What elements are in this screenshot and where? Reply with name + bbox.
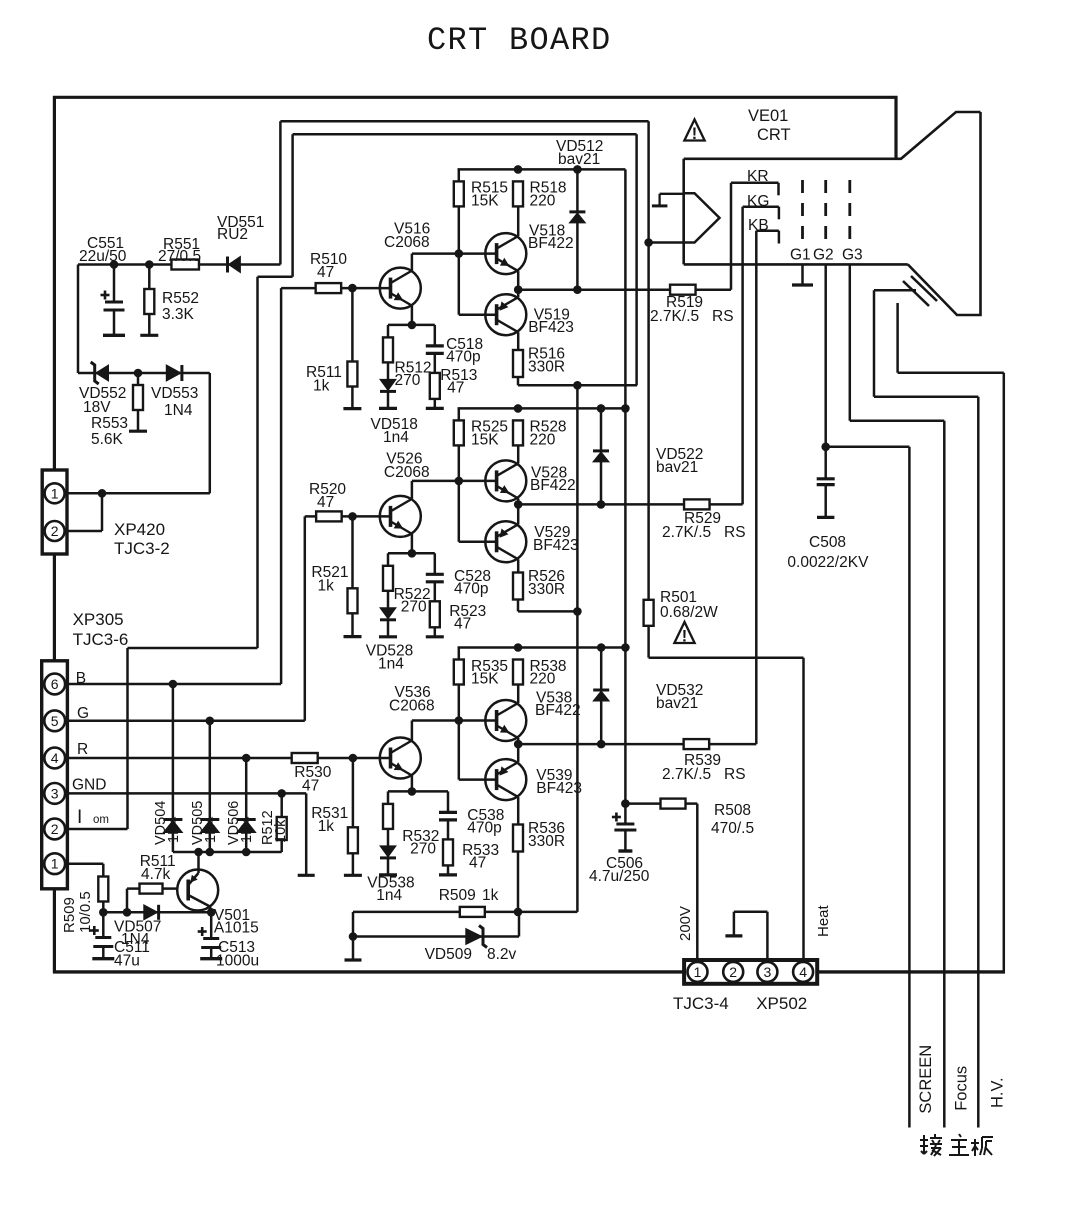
wire HV from funnel bbox=[874, 289, 916, 292]
resistor R535 15K bbox=[458, 648, 461, 660]
svg-text:470p: 470p bbox=[467, 820, 501, 837]
resistor R530 47 bbox=[292, 753, 318, 763]
wire V526 collector to drivers bbox=[455, 477, 464, 486]
diode VD532 bav21 bbox=[600, 648, 603, 691]
resistor R551 27/0.5 bbox=[171, 260, 199, 270]
svg-text:470p: 470p bbox=[454, 581, 488, 598]
svg-text:15K: 15K bbox=[471, 431, 499, 448]
wire bias node bbox=[103, 911, 211, 914]
wire KG vertical to R529 bbox=[741, 207, 744, 505]
svg-text:RU2: RU2 bbox=[217, 226, 248, 243]
svg-text:GND: GND bbox=[72, 777, 106, 794]
svg-text:200V: 200V bbox=[677, 906, 694, 941]
svg-text:1N4: 1N4 bbox=[203, 816, 219, 843]
svg-text:A1015: A1015 bbox=[214, 920, 259, 937]
svg-text:0.68/2W: 0.68/2W bbox=[660, 604, 718, 621]
resistor R519 2.7K/.5 RS bbox=[670, 285, 696, 295]
G1 ground bbox=[801, 264, 804, 285]
transistor V519 BF423 bbox=[485, 294, 526, 335]
svg-text:VE01: VE01 bbox=[748, 107, 788, 125]
resistor R516 330R bbox=[513, 350, 523, 377]
svg-text:BF422: BF422 bbox=[535, 702, 581, 719]
svg-text:BF423: BF423 bbox=[536, 780, 582, 797]
svg-text:1: 1 bbox=[694, 964, 702, 980]
resistor R518 220 bbox=[513, 181, 523, 206]
svg-text:VD509: VD509 bbox=[425, 946, 472, 963]
svg-text:1N4: 1N4 bbox=[164, 402, 193, 419]
wire V516 collector to drivers bbox=[455, 249, 464, 258]
grid G1 dashed electrode bbox=[801, 180, 804, 247]
svg-text:C508: C508 bbox=[809, 534, 846, 551]
wire KR vertical to R519 bbox=[730, 183, 733, 290]
resistor R536 330R bbox=[513, 825, 523, 852]
resistor R520 47 bbox=[316, 511, 342, 521]
svg-text:18V: 18V bbox=[83, 399, 111, 416]
capacitor C506 4.7u/250 bbox=[624, 804, 627, 824]
svg-text:G: G bbox=[77, 705, 89, 722]
wire KB vertical to R539 bbox=[755, 231, 758, 744]
svg-text:R509: R509 bbox=[439, 887, 476, 904]
wire bias bottom node bbox=[353, 911, 577, 914]
resistor R510 47 bbox=[316, 283, 342, 293]
svg-text:2.7K/.5: 2.7K/.5 bbox=[662, 766, 711, 783]
svg-text:!: ! bbox=[682, 627, 687, 645]
svg-text:330R: 330R bbox=[528, 581, 565, 598]
capacitor C518 470p bbox=[434, 325, 437, 346]
diode VD507 1N4 bbox=[144, 905, 158, 920]
svg-text:1k: 1k bbox=[318, 818, 335, 835]
svg-text:3: 3 bbox=[764, 964, 772, 980]
svg-text:XP305: XP305 bbox=[73, 610, 124, 629]
wire clamp bottom rail bbox=[173, 851, 282, 854]
warning triangle near R501 bbox=[674, 622, 694, 643]
svg-text:R552: R552 bbox=[162, 290, 199, 307]
svg-text:RS: RS bbox=[724, 524, 746, 541]
wire ground chain nested Y2 bbox=[291, 134, 294, 277]
diode VD506 1N4 bbox=[245, 758, 248, 820]
wire VD509 row bbox=[352, 912, 355, 960]
svg-text:1000u: 1000u bbox=[216, 953, 259, 970]
svg-text:3: 3 bbox=[51, 785, 59, 801]
svg-text:RS: RS bbox=[712, 308, 734, 325]
svg-text:2.7K/.5: 2.7K/.5 bbox=[650, 308, 699, 325]
diode VD553 1N4 bbox=[134, 369, 143, 378]
svg-text:15K: 15K bbox=[471, 671, 499, 688]
svg-text:6: 6 bbox=[51, 676, 59, 692]
stage 3 output wire to R539 bbox=[518, 743, 756, 746]
resistor R509 10/0.5 bbox=[65, 862, 103, 865]
stage 1 bottom segment bbox=[517, 377, 520, 385]
diode VD522 bav21 bbox=[600, 408, 603, 451]
stage 3 output node bbox=[514, 740, 523, 749]
svg-text:22u/50: 22u/50 bbox=[79, 248, 127, 265]
svg-text:47: 47 bbox=[454, 616, 471, 633]
wire 200V riser from R508 to stage rails bbox=[624, 169, 627, 803]
diode VD518 1n4 bbox=[380, 379, 396, 390]
stage 2 input wire from G bbox=[305, 515, 317, 518]
diode VD505 1N4 bbox=[209, 721, 212, 820]
svg-text:220: 220 bbox=[530, 431, 556, 448]
svg-text:330R: 330R bbox=[528, 833, 565, 850]
text jie-zhu-ban (to mainboard) bbox=[923, 1135, 925, 1154]
svg-text:220: 220 bbox=[530, 192, 556, 209]
svg-text:bav21: bav21 bbox=[656, 459, 698, 476]
svg-text:BF423: BF423 bbox=[533, 537, 579, 554]
board outline border bbox=[53, 96, 56, 973]
resistor R511 4.7k bbox=[127, 887, 140, 890]
transistor V518 BF422 bbox=[485, 233, 526, 274]
svg-text:1n4: 1n4 bbox=[383, 429, 409, 446]
svg-text:0.0022/2KV: 0.0022/2KV bbox=[787, 554, 869, 571]
svg-text:2: 2 bbox=[51, 523, 59, 539]
grid G3 dashed electrode bbox=[848, 180, 851, 247]
resistor R509 1k bbox=[460, 907, 485, 917]
svg-text:Focus: Focus bbox=[953, 1066, 971, 1111]
bias vertical from stage1 to R509 node bbox=[576, 385, 579, 912]
svg-text:CRT: CRT bbox=[757, 126, 791, 144]
svg-text:4: 4 bbox=[51, 750, 59, 766]
svg-text:47: 47 bbox=[317, 264, 334, 281]
transistor V536 C2068 bbox=[380, 738, 421, 779]
svg-text:!: ! bbox=[692, 125, 697, 143]
svg-text:G2: G2 bbox=[813, 247, 834, 264]
wire XP420 pin2 jumper bbox=[65, 530, 102, 533]
svg-text:330R: 330R bbox=[528, 359, 565, 376]
CRT tube VE01 outline bbox=[684, 112, 981, 159]
svg-text:47: 47 bbox=[447, 380, 464, 397]
wire G3 to Focus bbox=[849, 264, 852, 420]
svg-text:om: om bbox=[93, 814, 109, 826]
svg-text:C2068: C2068 bbox=[384, 464, 430, 481]
transistor V529 BF423 bbox=[485, 521, 526, 562]
transistor V528 BF422 bbox=[485, 460, 526, 501]
emitter node and R532 C538 branch bbox=[408, 787, 417, 796]
wire GND bbox=[65, 792, 306, 795]
wire Iom bbox=[65, 828, 127, 831]
stage 3 emitter resistor to bias node bbox=[517, 852, 520, 912]
wire SCREEN vertical bbox=[908, 447, 911, 1128]
stage 1 input wire from B bbox=[281, 287, 316, 290]
svg-text:TJC3-4: TJC3-4 bbox=[673, 994, 729, 1013]
capacitor C511 47u bbox=[102, 912, 105, 937]
svg-text:Heat: Heat bbox=[815, 904, 832, 937]
svg-text:R553: R553 bbox=[91, 415, 128, 432]
svg-text:1k: 1k bbox=[318, 578, 335, 595]
svg-text:R: R bbox=[77, 741, 88, 758]
resistor R529 2.7K/.5 RS bbox=[684, 499, 710, 509]
resistor R523 47 bbox=[430, 601, 440, 627]
svg-text:10k: 10k bbox=[273, 819, 289, 843]
svg-text:47: 47 bbox=[302, 778, 319, 795]
svg-text:27/0.5: 27/0.5 bbox=[158, 248, 201, 265]
wire Focus vertical bbox=[943, 421, 946, 1128]
svg-text:R509: R509 bbox=[61, 897, 78, 933]
resistor R531 1k bbox=[349, 754, 358, 763]
svg-text:47u: 47u bbox=[114, 953, 140, 970]
svg-text:270: 270 bbox=[395, 372, 421, 389]
svg-text:BF422: BF422 bbox=[528, 235, 574, 252]
deflection/anode double slash on funnel bbox=[903, 281, 929, 306]
svg-text:RS: RS bbox=[724, 766, 746, 783]
stage 2 output node bbox=[514, 500, 523, 509]
stage 2 top rail bbox=[458, 407, 626, 410]
svg-text:I: I bbox=[77, 807, 82, 828]
svg-text:C2068: C2068 bbox=[384, 234, 430, 251]
resistor R512 10k bbox=[280, 793, 283, 817]
svg-text:10/0.5: 10/0.5 bbox=[77, 891, 94, 933]
svg-text:G1: G1 bbox=[790, 247, 811, 264]
zener VD552 18V bbox=[96, 365, 109, 381]
svg-text:1n4: 1n4 bbox=[376, 887, 402, 904]
wire gun cathode feed junction bbox=[644, 238, 653, 247]
zener VD509 8.2v bbox=[466, 929, 482, 945]
stage 1 output node bbox=[514, 285, 523, 294]
resistor R511 1k stage1 bbox=[348, 284, 357, 293]
capacitor C538 470p bbox=[447, 791, 450, 812]
stage 2 bottom segment bbox=[517, 600, 520, 612]
svg-text:270: 270 bbox=[401, 599, 427, 616]
resistor R526 330R bbox=[513, 573, 523, 600]
svg-text:H.V.: H.V. bbox=[989, 1077, 1007, 1108]
diode VD504 1N4 bbox=[172, 684, 175, 820]
stage 3 top rail bbox=[458, 646, 626, 649]
svg-text:15K: 15K bbox=[471, 192, 499, 209]
wire R input bbox=[65, 757, 390, 760]
svg-text:1k: 1k bbox=[482, 887, 499, 904]
connector XP502 TJC3-4 bbox=[684, 960, 817, 984]
transistor V516 C2068 bbox=[380, 268, 421, 309]
svg-text:TJC3-2: TJC3-2 bbox=[114, 539, 170, 558]
svg-text:4.7u/250: 4.7u/250 bbox=[589, 868, 650, 885]
svg-text:4: 4 bbox=[799, 964, 807, 980]
svg-text:4.7k: 4.7k bbox=[141, 866, 171, 883]
diode VD528 1n4 bbox=[380, 608, 396, 619]
svg-text:47: 47 bbox=[469, 855, 486, 872]
svg-text:47: 47 bbox=[317, 494, 334, 511]
resistor R508 470/.5 bbox=[625, 802, 660, 805]
resistor R513 47 bbox=[430, 373, 440, 399]
resistor R521 1k bbox=[348, 512, 357, 521]
svg-text:bav21: bav21 bbox=[656, 695, 698, 712]
stage 2 output wire to R529 bbox=[518, 503, 742, 506]
svg-text:bav21: bav21 bbox=[558, 151, 600, 168]
transistor V501 A1015 bbox=[177, 870, 218, 911]
svg-text:1N4: 1N4 bbox=[166, 816, 182, 843]
svg-text:5: 5 bbox=[51, 713, 59, 729]
wire supply entry node bbox=[78, 263, 280, 266]
resistor R525 15K bbox=[458, 408, 461, 420]
diode VD551 RU2 bbox=[229, 257, 241, 273]
svg-text:SCREEN: SCREEN bbox=[917, 1045, 935, 1114]
connector XP420 TJC3-2 bbox=[42, 470, 67, 554]
svg-text:BF422: BF422 bbox=[530, 477, 576, 494]
emitter node and R522 C528 branch bbox=[408, 549, 417, 558]
wire G2 to C508 node bbox=[824, 264, 827, 446]
wire G input bbox=[65, 720, 305, 723]
svg-text:1: 1 bbox=[51, 485, 59, 501]
resistor R501 0.68/2W bbox=[644, 600, 654, 626]
svg-text:270: 270 bbox=[410, 841, 436, 858]
svg-text:1k: 1k bbox=[313, 378, 330, 395]
capacitor C551 22u/50 bbox=[110, 260, 119, 269]
transistor V538 BF422 bbox=[485, 700, 526, 741]
diode VD512 bav21 bbox=[576, 169, 579, 212]
wire XP420 pin1 to supply bbox=[65, 492, 210, 495]
electron gun pentagon bbox=[684, 193, 720, 242]
capacitor C508 0.0022/2KV bbox=[824, 447, 827, 479]
resistor R539 2.7K/.5 RS bbox=[684, 739, 710, 749]
svg-text:XP502: XP502 bbox=[756, 994, 807, 1013]
svg-text:5.6K: 5.6K bbox=[91, 431, 124, 448]
XP502 pin3 ground hook bbox=[766, 912, 769, 960]
wire V536 collector to drivers bbox=[455, 716, 464, 725]
svg-text:VD553: VD553 bbox=[151, 385, 198, 402]
svg-text:TJC3-6: TJC3-6 bbox=[73, 630, 129, 649]
svg-text:2.7K/.5: 2.7K/.5 bbox=[662, 524, 711, 541]
wire HV vertical bbox=[977, 397, 980, 1128]
resistor R533 47 bbox=[443, 839, 453, 865]
wire B input bbox=[65, 683, 281, 686]
svg-text:1N4: 1N4 bbox=[239, 816, 255, 843]
resistor R553 5.6K bbox=[137, 373, 140, 385]
warning triangle near CRT bbox=[684, 119, 704, 140]
svg-text:1n4: 1n4 bbox=[378, 656, 404, 673]
transistor V539 BF423 bbox=[485, 759, 526, 800]
diode VD538 1n4 bbox=[380, 846, 396, 857]
svg-text:G3: G3 bbox=[842, 247, 863, 264]
gun grid pin stub bbox=[652, 204, 668, 207]
emitter node and R512 C518 branch bbox=[408, 321, 417, 330]
svg-text:3.3K: 3.3K bbox=[162, 306, 195, 323]
svg-text:XP420: XP420 bbox=[114, 520, 165, 539]
resistor R528 220 bbox=[513, 420, 523, 445]
svg-text:BF423: BF423 bbox=[528, 319, 574, 336]
wire anode stub to bottom rail bbox=[896, 303, 899, 373]
grid G2 dashed electrode bbox=[824, 180, 827, 247]
transistor V526 C2068 bbox=[380, 496, 421, 537]
resistor R552 3.3K bbox=[145, 260, 154, 269]
resistor R538 220 bbox=[513, 660, 523, 685]
svg-text:470/.5: 470/.5 bbox=[711, 820, 754, 837]
svg-text:470p: 470p bbox=[446, 349, 480, 366]
capacitor C513 1000u bbox=[210, 912, 213, 938]
resistor R515 15K bbox=[458, 169, 461, 181]
svg-text:220: 220 bbox=[530, 671, 556, 688]
svg-text:CRT BOARD: CRT BOARD bbox=[427, 22, 612, 59]
stage 1 output wire to R519 bbox=[518, 288, 731, 291]
wire zener clamp row bbox=[78, 372, 210, 375]
stage 1 top rail bbox=[458, 168, 626, 171]
svg-text:R508: R508 bbox=[714, 802, 751, 819]
svg-text:2: 2 bbox=[729, 964, 737, 980]
capacitor C528 470p bbox=[434, 553, 437, 574]
wire supply feed top nested Y1 bbox=[279, 121, 282, 264]
svg-text:2: 2 bbox=[51, 821, 59, 837]
svg-text:1: 1 bbox=[51, 856, 59, 872]
svg-text:8.2v: 8.2v bbox=[487, 946, 517, 963]
svg-text:C2068: C2068 bbox=[389, 698, 435, 715]
